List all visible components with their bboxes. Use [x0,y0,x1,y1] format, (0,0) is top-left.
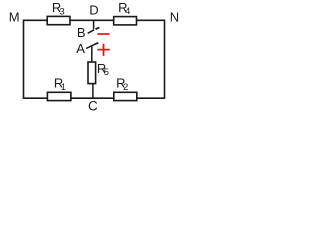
svg-text:1: 1 [61,82,66,92]
wire bottom [24,97,165,99]
wire left: M down to bottom-left corner [23,20,25,100]
svg-text:3: 3 [60,7,65,17]
wire: A down to R5 [91,46,93,63]
contact tick of switch B [96,28,100,30]
svg-text:2: 2 [123,82,128,92]
minus sign (red) at B [97,33,109,35]
resistor R4 box [114,17,137,25]
wire right: N down to bottom-right corner [164,20,166,100]
plus sign (red) at A [97,44,109,56]
wire: D junction down to switch contact [93,20,95,29]
wire: R5 bottom to C junction [92,83,94,99]
svg-text:D: D [89,3,98,18]
svg-text:5: 5 [104,67,109,77]
svg-text:C: C [88,99,98,114]
svg-text:M: M [9,10,20,25]
svg-text:B: B [77,25,86,40]
switch blade at A (open, with plus polarity) [86,44,95,48]
resistor R2 box [114,92,137,100]
resistor R3 box [47,16,70,24]
resistor R5 box (vertical) [88,62,96,84]
svg-text:4: 4 [125,6,130,16]
switch blade at B (open, with minus polarity) [88,30,95,34]
contact tick of switch A [95,43,98,44]
svg-text:A: A [76,41,85,56]
svg-text:N: N [170,10,179,25]
wire top: M to N [24,19,165,21]
resistor R1 box [47,92,71,100]
